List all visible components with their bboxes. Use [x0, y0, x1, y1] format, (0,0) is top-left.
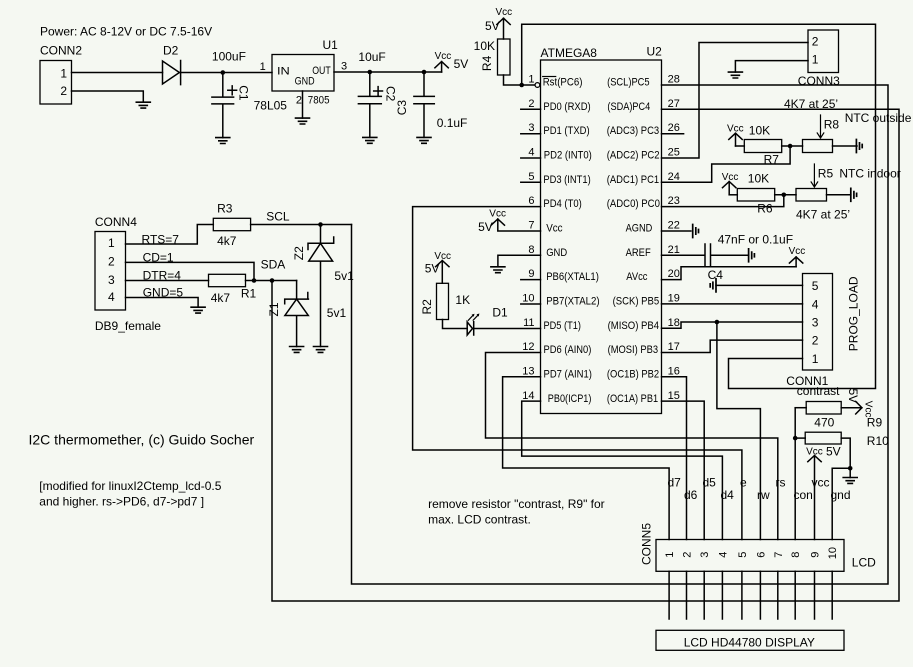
svg-text:10uF: 10uF [358, 50, 385, 64]
pin 13 PD7 (AIN1) [522, 366, 592, 381]
regulator U1 78L05 [254, 38, 348, 113]
capacitor C1 100uF [212, 50, 251, 138]
ground at C1 [216, 138, 230, 144]
svg-text:22: 22 [668, 220, 680, 232]
wire chip pin8 GND to ground [498, 255, 541, 266]
svg-text:PB0(ICP1): PB0(ICP1) [548, 393, 592, 405]
svg-text:(ADC2) PC2: (ADC2) PC2 [607, 150, 660, 162]
svg-text:CONN4: CONN4 [95, 215, 137, 229]
wire gnd node stub [849, 468, 851, 477]
wire CONN5 pin5 to display [741, 571, 743, 619]
svg-text:5v1: 5v1 [327, 306, 347, 320]
connector CONN5 LCD header [639, 523, 844, 572]
svg-text:5V: 5V [485, 19, 500, 33]
svg-text:10K: 10K [749, 124, 770, 138]
svg-text:4k7: 4k7 [211, 291, 231, 305]
power Vcc 5V at R9 [841, 389, 873, 418]
svg-text:14: 14 [522, 390, 534, 402]
svg-text:gnd: gnd [831, 488, 851, 502]
terminal pin at R5 [851, 188, 857, 201]
svg-text:17: 17 [668, 341, 680, 353]
svg-text:16: 16 [668, 366, 680, 378]
svg-text:PD2 (INT0): PD2 (INT0) [544, 150, 592, 162]
svg-text:R6: R6 [757, 202, 773, 216]
led D1 [467, 306, 508, 336]
wire MISO node to LCD rw [717, 322, 761, 540]
svg-text:78L05: 78L05 [254, 99, 288, 113]
wire CONN5 pin6 to display [759, 571, 761, 619]
wire contrast net to LCD con [794, 408, 796, 540]
svg-text:[modified for linuxI2Ctemp_lcd: [modified for linuxI2Ctemp_lcd-0.5 [39, 479, 221, 493]
svg-text:4: 4 [108, 290, 115, 304]
svg-text:5: 5 [528, 171, 534, 183]
junction R6-R5 node [782, 193, 787, 198]
svg-text:PB7(XTAL2): PB7(XTAL2) [546, 296, 599, 308]
junction at C2 [368, 70, 373, 75]
svg-text:d4: d4 [721, 488, 735, 502]
svg-text:1: 1 [664, 552, 676, 558]
svg-text:3: 3 [108, 273, 115, 287]
wire R1 to Z1 [246, 280, 297, 282]
terminal pin at R8 [856, 140, 862, 153]
wire AGND stub [662, 230, 691, 232]
svg-text:25: 25 [668, 147, 680, 159]
svg-text:4: 4 [812, 297, 819, 311]
svg-text:5V: 5V [454, 57, 469, 71]
wire PB2 to LCD d6 [662, 377, 687, 540]
svg-text:U2: U2 [647, 45, 663, 59]
wire R6 to R5 [775, 194, 796, 196]
junction SCL node [318, 222, 323, 227]
svg-text:7: 7 [528, 220, 534, 232]
svg-text:24: 24 [668, 171, 680, 183]
svg-text:vcc: vcc [812, 476, 830, 490]
ground at U1 [296, 118, 310, 124]
svg-text:(MISO) PB4: (MISO) PB4 [608, 320, 660, 332]
svg-text:(ADC1) PC1: (ADC1) PC1 [607, 174, 660, 186]
svg-text:Vcc: Vcc [862, 401, 873, 418]
svg-text:DB9_female: DB9_female [95, 319, 161, 333]
svg-text:C3: C3 [395, 100, 409, 116]
svg-text:max. LCD contrast.: max. LCD contrast. [428, 513, 531, 527]
svg-text:26: 26 [668, 122, 680, 134]
wire R7 to R8 [782, 145, 803, 147]
wire D2 to C1 node [181, 72, 272, 74]
svg-text:remove resistor "contrast, R9": remove resistor "contrast, R9" for [428, 497, 605, 511]
connector CONN2 [40, 44, 82, 105]
junction at C1 [221, 70, 226, 75]
svg-text:d6: d6 [684, 488, 698, 502]
connector CONN3 [798, 30, 840, 88]
svg-text:4: 4 [528, 147, 534, 159]
wire R8 to terminal [833, 145, 858, 147]
svg-text:SCL: SCL [266, 210, 290, 224]
connector CONN1 PROG_LOAD [786, 274, 860, 389]
svg-text:Vcc: Vcc [789, 246, 806, 257]
svg-text:PROG_LOAD: PROG_LOAD [847, 276, 861, 351]
wire chip pin18 to CONN1 pin3 [662, 322, 803, 328]
power Vcc at AVcc [789, 246, 806, 267]
wire R3 to SCL node [251, 224, 352, 226]
wire CONN3 pin2 to chip pin25 [662, 43, 809, 159]
resistor R2 1K [420, 283, 470, 319]
svg-text:LCD: LCD [852, 556, 876, 570]
svg-text:10: 10 [827, 547, 839, 559]
wire CONN5 pin10 to display [831, 571, 833, 619]
ground at CONN2 pin2 [136, 102, 150, 108]
junction R7-R8 node [788, 144, 793, 149]
svg-text:R2: R2 [420, 299, 434, 315]
junction contrast-R10 [793, 436, 798, 441]
svg-text:11: 11 [523, 317, 534, 329]
wire chip pin7 Vcc to supply [498, 219, 541, 231]
svg-text:con: con [794, 488, 813, 502]
wire PD7 to LCD d7 [503, 377, 669, 540]
wire CONN5 pin9 to display [814, 571, 816, 619]
pin 5 PD3 (INT1) [521, 171, 591, 186]
inversion circle chip pin1 [535, 83, 540, 88]
svg-text:d5: d5 [703, 476, 717, 490]
svg-text:5v1: 5v1 [334, 269, 354, 283]
svg-text:PD4 (T0): PD4 (T0) [543, 198, 581, 210]
svg-text:NTC outside: NTC outside [845, 111, 912, 125]
svg-text:47nF or 0.1uF: 47nF or 0.1uF [718, 232, 793, 246]
wire R5 to terminal [827, 194, 851, 196]
wire R4 to reset node [504, 75, 535, 85]
pin 11 PD5 (T1) [523, 317, 581, 332]
svg-text:23: 23 [668, 195, 680, 207]
svg-text:13: 13 [522, 366, 534, 378]
svg-text:2: 2 [682, 552, 694, 558]
pin 21 AREF [626, 244, 680, 259]
svg-text:18: 18 [668, 317, 680, 329]
svg-text:CONN3: CONN3 [798, 74, 840, 88]
svg-text:7: 7 [773, 552, 785, 558]
power Vcc 5V at regulator output [435, 51, 469, 72]
pin 27 (SDA)PC4 [607, 98, 679, 113]
svg-text:10K: 10K [748, 172, 769, 186]
svg-text:5V: 5V [846, 389, 860, 404]
ground at C2 [363, 137, 377, 143]
svg-text:6: 6 [528, 195, 534, 207]
svg-text:R10: R10 [867, 434, 889, 448]
wire PD6 to LCD rs [486, 353, 778, 540]
resistor R4 10K [474, 39, 510, 75]
svg-text:R3: R3 [217, 202, 233, 216]
wire CONN4 pin3 to R1 [126, 280, 209, 282]
svg-text:100uF: 100uF [212, 50, 246, 64]
terminal pin at AGND [693, 225, 699, 238]
ground at CONN3 [728, 72, 742, 78]
pin 19 (SCK) PB5 [613, 293, 680, 308]
svg-text:Z2: Z2 [292, 246, 306, 260]
svg-text:1: 1 [108, 236, 115, 250]
svg-text:20: 20 [668, 268, 680, 280]
svg-text:5V: 5V [425, 262, 440, 276]
pin 1 Rst(PC6) [528, 74, 582, 89]
svg-text:12: 12 [522, 341, 534, 353]
svg-text:4K7 at 25’: 4K7 at 25’ [796, 208, 850, 222]
pin 4 PD2 (INT0) [521, 147, 592, 162]
wire R10 to gnd node [832, 438, 850, 539]
capacitor C3 0.1uF [395, 72, 467, 137]
pin 25 (ADC2) PC2 [607, 147, 680, 162]
ground at chip pin8 [491, 267, 505, 273]
svg-text:7805: 7805 [308, 95, 330, 107]
ground at Z2 [314, 347, 328, 353]
svg-text:3: 3 [812, 316, 819, 330]
wire SDA net [272, 109, 899, 601]
svg-text:AREF: AREF [626, 247, 651, 259]
wire CONN4 pin2 to SDA node [126, 262, 255, 280]
wire CONN4 pin4 to ground [126, 298, 199, 308]
pin 9 PB6(XTAL1) [521, 268, 599, 283]
svg-text:8: 8 [790, 552, 802, 558]
svg-text:contrast: contrast [797, 384, 840, 398]
junction MISO node [715, 320, 720, 325]
svg-text:2: 2 [108, 255, 115, 269]
svg-text:SDA: SDA [261, 258, 286, 272]
power Vcc 5V at chip pin7 [478, 208, 506, 234]
wire reset rail to CONN1 pin 1 [522, 24, 876, 388]
svg-text:R1: R1 [241, 287, 257, 301]
junction R1 node [252, 278, 257, 283]
resistor R3 4k7 [213, 202, 250, 249]
wire CONN4 pin1 to R3 [126, 225, 214, 245]
resistor R6 10K [729, 172, 775, 216]
power Vcc at R6 [722, 172, 739, 195]
svg-text:10K: 10K [474, 39, 495, 53]
ground at Z1 [290, 347, 304, 353]
svg-text:C2: C2 [384, 86, 398, 102]
svg-text:R8: R8 [824, 118, 840, 132]
svg-text:PD0 (RXD): PD0 (RXD) [543, 101, 590, 113]
svg-text:d7: d7 [668, 476, 682, 490]
svg-text:OUT: OUT [312, 65, 331, 77]
svg-text:e: e [740, 476, 747, 490]
wire chip pin17 to CONN1 pin2 [662, 340, 803, 352]
resistor R7 10K [736, 124, 782, 167]
power Vcc 5V at R2 [425, 251, 451, 283]
pin 26 (ADC3) PC3 [607, 122, 684, 137]
svg-text:1: 1 [528, 74, 534, 86]
pin 20 AVcc [626, 268, 680, 283]
pin 23 (ADC0) PC0 [607, 195, 680, 210]
svg-text:4: 4 [717, 552, 729, 558]
pin 12 PD6 (AIN0) [522, 341, 591, 356]
svg-text:R5: R5 [818, 167, 834, 181]
svg-text:IN: IN [277, 65, 290, 77]
junction gnd node [848, 466, 853, 471]
svg-text:1K: 1K [455, 293, 470, 307]
svg-text:1: 1 [812, 352, 819, 366]
svg-text:U1: U1 [323, 38, 339, 52]
svg-text:Vcc: Vcc [496, 7, 513, 18]
wire chip pin19 to CONN1 pin4 [662, 303, 803, 305]
svg-text:2: 2 [812, 35, 819, 49]
pin 2 PD0 (RXD) [521, 98, 591, 113]
svg-text:Power: AC 8-12V or DC 7.5-16V: Power: AC 8-12V or DC 7.5-16V [40, 25, 212, 39]
resistor R9 470 [795, 402, 882, 430]
svg-text:CONN2: CONN2 [40, 44, 82, 58]
svg-text:AGND: AGND [626, 223, 653, 235]
wire CONN3 pin1 to ground [735, 61, 808, 73]
wire CONN5 pin7 to display [777, 571, 779, 619]
ground at C3 [417, 137, 431, 143]
svg-text:D2: D2 [163, 44, 179, 58]
wire PB0 to LCD d4 [522, 401, 723, 539]
svg-text:470: 470 [814, 416, 834, 430]
capacitor C4 47nF [662, 232, 794, 282]
svg-text:Vcc: Vcc [546, 223, 563, 235]
wire PD4 T0 to LCD e [413, 207, 742, 540]
svg-text:1: 1 [60, 66, 67, 80]
pin 3 PD1 (TXD) [521, 122, 590, 137]
svg-text:4k7: 4k7 [217, 234, 237, 248]
power Vcc at R7 [727, 123, 744, 146]
svg-text:9: 9 [528, 268, 534, 280]
zener diode Z2 5v1 [292, 225, 354, 347]
svg-text:2: 2 [528, 98, 534, 110]
svg-text:19: 19 [668, 293, 680, 305]
pin 14 PB0(ICP1) [522, 390, 591, 405]
capacitor C2 10uF [358, 50, 397, 137]
junction at C3 [422, 70, 427, 75]
resistor R10 [795, 432, 889, 448]
ground at CONN4 pin4 [191, 307, 205, 313]
wire D1 to chip pin11 [474, 328, 541, 330]
resistor R1 4k7 [209, 274, 257, 305]
wire CONN5 pin8 to display [794, 571, 796, 619]
junction SDA node [270, 278, 275, 283]
svg-text:R9: R9 [867, 416, 883, 430]
wire CONN5 pin4 to display [721, 571, 723, 619]
resistor R5 NTC indoor [796, 164, 901, 201]
svg-text:D1: D1 [492, 306, 508, 320]
svg-text:0.1uF: 0.1uF [437, 116, 468, 130]
svg-text:NTC indoor: NTC indoor [839, 167, 900, 181]
svg-text:LCD HD44780 DISPLAY: LCD HD44780 DISPLAY [684, 636, 815, 650]
svg-text:5: 5 [737, 552, 749, 558]
wire CONN5 pin3 to display [703, 571, 705, 619]
svg-text:8: 8 [528, 244, 534, 256]
svg-text:5V: 5V [478, 220, 493, 234]
ground at LCD gnd [843, 478, 857, 484]
terminal pin at CONN1 pin5 [710, 279, 716, 292]
svg-text:rw: rw [757, 488, 770, 502]
wire CONN2 pin2 to ground [72, 91, 144, 102]
svg-text:Vcc: Vcc [489, 208, 506, 219]
pin 24 (ADC1) PC1 [607, 171, 680, 186]
wire U1 GND to ground [302, 91, 304, 118]
svg-text:PB6(XTAL1): PB6(XTAL1) [546, 271, 599, 283]
svg-text:(SCK) PB5: (SCK) PB5 [613, 296, 660, 308]
pin 18 (MISO) PB4 [608, 317, 680, 332]
svg-text:5: 5 [812, 279, 819, 293]
zener diode Z1 5v1 [267, 281, 346, 347]
svg-text:(MOSI) PB3: (MOSI) PB3 [608, 344, 659, 356]
pin 10 PB7(XTAL2) [521, 293, 600, 308]
power Vcc 5V at LCD vcc [806, 445, 841, 540]
pin 8 GND [528, 244, 567, 259]
svg-text:Z1: Z1 [267, 302, 281, 316]
svg-text:(SCL)PC5: (SCL)PC5 [607, 77, 650, 89]
wire CONN2 pin1 to D2 [72, 72, 163, 74]
svg-text:2: 2 [296, 95, 302, 107]
svg-text:2: 2 [812, 334, 819, 348]
svg-text:PD6 (AIN0): PD6 (AIN0) [544, 344, 592, 356]
pin 6 PD4 (T0) [528, 195, 581, 210]
svg-text:3: 3 [341, 61, 347, 73]
wire CONN5 pin1 to display [668, 571, 670, 619]
svg-text:9: 9 [810, 552, 822, 558]
svg-text:and higher. rs->PD6, d7->pd7 ]: and higher. rs->PD6, d7->pd7 ] [39, 495, 204, 509]
display LCD HD44780 [656, 630, 844, 650]
svg-text:(OC1A) PB1: (OC1A) PB1 [607, 393, 658, 405]
svg-text:5V: 5V [826, 445, 841, 459]
svg-text:CONN5: CONN5 [639, 523, 653, 565]
pin 17 (MOSI) PB3 [608, 341, 680, 356]
svg-text:1: 1 [812, 53, 819, 67]
wire CONN5 pin2 to display [686, 571, 688, 619]
wire AVcc to supply [662, 267, 797, 280]
svg-text:(OC1B) PB2: (OC1B) PB2 [607, 369, 659, 381]
svg-text:15: 15 [668, 390, 680, 402]
pin 22 AGND [626, 220, 680, 235]
svg-text:C1: C1 [237, 85, 251, 101]
svg-text:(ADC3) PC3: (ADC3) PC3 [607, 125, 660, 137]
svg-text:R4: R4 [480, 55, 494, 71]
svg-text:ATMEGA8: ATMEGA8 [541, 46, 598, 60]
op-amp U2 ATMEGA8 body [541, 45, 663, 414]
svg-text:PD5 (T1): PD5 (T1) [544, 320, 581, 332]
wire PB1 to LCD d5 [662, 401, 705, 539]
svg-text:PD3 (INT1): PD3 (INT1) [543, 174, 590, 186]
svg-text:PD7 (AIN1): PD7 (AIN1) [544, 369, 592, 381]
svg-text:PD1 (TXD): PD1 (TXD) [543, 125, 589, 137]
svg-text:6: 6 [755, 552, 767, 558]
diode D2 [163, 44, 181, 85]
pin 16 (OC1B) PB2 [607, 366, 680, 381]
power Vcc 5V at R4 [485, 7, 512, 39]
connector CONN4 DB9 [95, 215, 161, 333]
wire R2 to D1 [443, 320, 468, 329]
svg-text:1: 1 [260, 61, 266, 73]
svg-text:Vcc: Vcc [435, 51, 452, 62]
pin 28 (SCL)PC5 [607, 74, 680, 89]
svg-text:27: 27 [668, 98, 680, 110]
svg-text:2: 2 [60, 84, 67, 98]
resistor R8 NTC outside [803, 111, 912, 153]
wire R7-R8 node to chip pin24 [662, 146, 791, 182]
svg-text:GND: GND [295, 75, 315, 87]
svg-text:GND: GND [546, 247, 567, 259]
svg-text:I2C thermomether, (c) Guido So: I2C thermomether, (c) Guido Socher [29, 432, 255, 448]
svg-text:3: 3 [528, 122, 534, 134]
junction reset node [519, 83, 524, 88]
svg-text:10: 10 [522, 293, 534, 305]
svg-text:28: 28 [668, 74, 680, 86]
svg-text:(ADC0) PC0: (ADC0) PC0 [607, 198, 660, 210]
svg-text:(SDA)PC4: (SDA)PC4 [607, 101, 650, 113]
svg-text:3: 3 [699, 552, 711, 558]
svg-text:Rst(PC6): Rst(PC6) [543, 77, 583, 89]
pin 15 (OC1A) PB1 [607, 390, 680, 405]
wire U1 OUT to Vcc [334, 71, 442, 73]
wire CONN1 pin5 [716, 284, 803, 286]
wire R6-R5 node to chip pin23 [662, 195, 784, 207]
terminal pin at AREF [749, 249, 755, 262]
